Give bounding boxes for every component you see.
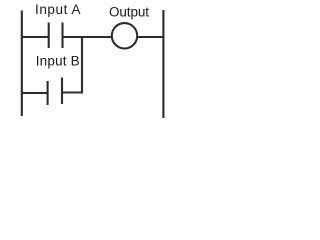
svg-text:Input B: Input B [36, 54, 80, 69]
svg-text:Output: Output [109, 5, 149, 20]
svg-text:Input A: Input A [35, 2, 81, 17]
